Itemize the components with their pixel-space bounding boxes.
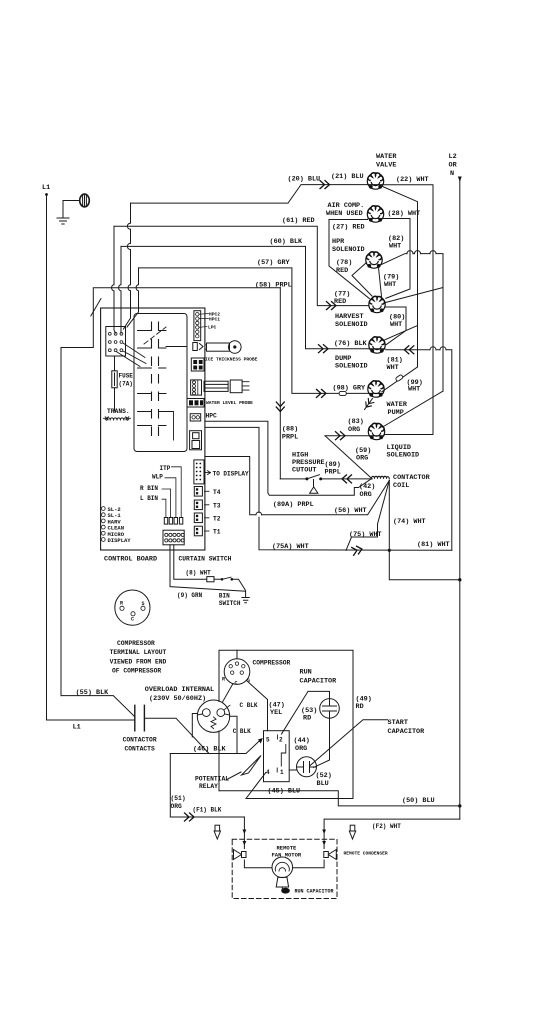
wire compressor S to relay [247, 681, 268, 731]
wire air comp return [368, 219, 410, 299]
svg-text:BLU: BLU [317, 780, 329, 788]
potential relay box [264, 731, 290, 782]
wire (83) ORG run [325, 435, 384, 437]
svg-text:C: C [235, 681, 238, 687]
connector chevron (F1) [185, 813, 195, 821]
inline plug (F1) [215, 825, 220, 831]
start capacitor leader [310, 720, 388, 766]
status LED CLEAN [101, 525, 105, 529]
hop (61) over (58) [112, 285, 114, 291]
svg-text:POTENTIAL: POTENTIAL [195, 776, 229, 783]
svg-text:(45) BLU: (45) BLU [268, 788, 301, 796]
svg-text:C BLK: C BLK [240, 702, 258, 709]
svg-text:(44): (44) [294, 737, 310, 745]
wire HPR feed [352, 263, 372, 297]
svg-text:(81) WHT: (81) WHT [417, 541, 450, 549]
svg-text:HARVEST: HARVEST [335, 313, 364, 321]
svg-text:OVERLOAD INTERNAL: OVERLOAD INTERNAL [145, 686, 214, 694]
status LED DISPLAY [101, 538, 105, 542]
svg-text:WHT: WHT [408, 386, 420, 394]
wire run cap bottom to start cap [314, 718, 330, 767]
solenoid water pump [368, 381, 384, 397]
svg-text:(230V 50/60HZ): (230V 50/60HZ) [149, 695, 206, 703]
terminal strip labels [199, 314, 209, 328]
wire (57) vertical to board [127, 268, 139, 327]
connector chevron (20) [320, 181, 330, 189]
mech contact row 1 [138, 330, 167, 332]
svg-text:CONTACTS: CONTACTS [125, 746, 155, 753]
hop (57) over (58) [136, 285, 138, 291]
svg-text:(21) BLU: (21) BLU [331, 173, 364, 181]
svg-text:VALVE: VALVE [376, 162, 396, 170]
display connector [194, 460, 204, 484]
terminal strip 5 circles [194, 311, 201, 341]
fan run capacitor [282, 887, 285, 893]
water pump stub chevron [365, 399, 373, 410]
wire (55) BLK run [61, 696, 135, 717]
wire dump return to corner [386, 350, 452, 551]
connector chevron (57)->(98) [317, 389, 327, 397]
wire HPR return to bus [382, 254, 444, 392]
connector chevron (61)->(77) [327, 302, 337, 310]
wire (75) WHT jog [346, 481, 389, 551]
hop (56) over v259 [256, 512, 262, 515]
connector chevron (89) [342, 475, 352, 483]
svg-text:SWITCH: SWITCH [219, 600, 241, 607]
svg-text:RD: RD [356, 703, 364, 711]
mech contact plates column 1 [151, 322, 153, 444]
ice thickness probe plug [193, 343, 198, 351]
inline connector capsule (98) [339, 391, 346, 395]
svg-text:SOLENOID: SOLENOID [335, 321, 368, 329]
svg-text:AIR COMP.: AIR COMP. [328, 202, 365, 210]
ground terminal circle [80, 194, 90, 207]
hop (82) over v433 [430, 251, 436, 254]
svg-text:T1: T1 [213, 529, 221, 536]
compressor circle [236, 650, 238, 659]
fan motor wires [244, 860, 324, 868]
svg-text:L BIN: L BIN [140, 495, 158, 502]
board corner diagonal [91, 299, 101, 317]
svg-text:RELAY: RELAY [199, 783, 218, 790]
solenoid air comp [367, 206, 383, 222]
T3 connector [194, 500, 202, 510]
svg-text:2: 2 [279, 737, 283, 744]
wire water valve diag to bus [383, 187, 418, 368]
relay mechanism box [134, 314, 187, 452]
svg-text:(46) BLK: (46) BLK [193, 746, 227, 754]
svg-text:L2: L2 [449, 153, 457, 161]
wire (60) vertical to board [120, 246, 122, 333]
svg-text:TO DISPLAY: TO DISPLAY [213, 470, 249, 477]
svg-text:N: N [450, 170, 454, 178]
svg-text:HPR: HPR [332, 238, 345, 246]
svg-text:CAPACITOR: CAPACITOR [300, 678, 338, 686]
wire (61) RED run [114, 226, 368, 305]
hop (82) over v410 [407, 251, 413, 254]
svg-text:(20) BLU: (20) BLU [288, 176, 321, 184]
connector 2x2 [191, 358, 204, 371]
wire (45) BLU run [246, 773, 353, 799]
node L1 terminal dot [45, 193, 48, 196]
svg-text:ICE THICKNESS PROBE: ICE THICKNESS PROBE [205, 357, 258, 363]
svg-text:PRPL: PRPL [325, 469, 341, 477]
svg-text:T3: T3 [213, 502, 221, 509]
inline plug (F2) [350, 825, 355, 831]
svg-text:ORG: ORG [171, 803, 183, 810]
connector block 9-pin [106, 327, 126, 357]
wire (57) GRY run [139, 268, 384, 394]
connector chevron (75A) [352, 545, 363, 555]
svg-text:ORG: ORG [295, 745, 307, 753]
water level probe body [204, 381, 228, 391]
wire into box left [243, 817, 245, 849]
inline connector (8) [207, 577, 214, 582]
control board box [101, 308, 205, 550]
svg-text:(98) GRY: (98) GRY [333, 385, 367, 393]
svg-text:R: R [222, 677, 225, 683]
svg-text:SOLENOID: SOLENOID [387, 452, 420, 460]
svg-text:HPC1: HPC1 [209, 317, 220, 323]
solenoid water valve [367, 173, 383, 189]
svg-text:OF COMPRESSOR: OF COMPRESSOR [112, 668, 161, 675]
wire (60) BLK run [121, 246, 385, 348]
svg-text:WATER LEVEL PROBE: WATER LEVEL PROBE [206, 400, 253, 406]
bin pins [164, 518, 167, 525]
svg-text:WHT: WHT [384, 281, 396, 289]
wire (8) WHT run [174, 545, 246, 597]
transformer T1 coil [104, 417, 131, 421]
solenoid liquid [368, 423, 384, 439]
wire (42) ORG jog at coil [205, 421, 371, 495]
left plug [234, 850, 242, 860]
svg-text:RED: RED [334, 298, 346, 306]
wire (51) ORG run [170, 754, 244, 818]
svg-text:WLP: WLP [152, 474, 163, 481]
connector chevron (83) [336, 432, 346, 440]
svg-text:C: C [131, 617, 134, 623]
arrowhead into pin 5 [258, 738, 263, 744]
svg-text:(75A) WHT: (75A) WHT [272, 543, 309, 551]
svg-text:1: 1 [280, 769, 284, 776]
svg-text:WHT: WHT [387, 364, 399, 372]
wire (9) GRN run [170, 545, 245, 591]
hop (81) over v433 [430, 347, 436, 350]
wire (46) BLK run [170, 741, 259, 754]
junction dot L2 at (50) [458, 804, 461, 807]
svg-text:(8) WHT: (8) WHT [186, 570, 212, 577]
svg-text:HPC: HPC [206, 413, 218, 420]
node L2 arrowhead [458, 177, 462, 183]
svg-text:L1: L1 [73, 724, 81, 732]
svg-text:(56) WHT: (56) WHT [334, 507, 367, 515]
svg-text:CAPACITOR: CAPACITOR [388, 728, 426, 736]
fan motor base [276, 877, 288, 887]
lower connector [190, 431, 202, 450]
wire (58) PRPL run [61, 288, 280, 696]
svg-text:RUN: RUN [300, 669, 312, 677]
svg-text:ORG: ORG [356, 455, 368, 463]
svg-text:REMOTE CONDENSER: REMOTE CONDENSER [344, 851, 388, 857]
remote fan dashed box [232, 839, 337, 898]
wire (58)/(88) vertical down [279, 288, 281, 479]
svg-text:T2: T2 [213, 515, 221, 522]
svg-text:(57) GRY: (57) GRY [257, 259, 291, 267]
svg-text:(60) BLK: (60) BLK [270, 238, 304, 246]
svg-text:5: 5 [266, 737, 270, 744]
wire water pump return diag [382, 367, 418, 392]
svg-text:(78): (78) [336, 259, 352, 267]
svg-text:VIEWED FROM END: VIEWED FROM END [110, 658, 167, 665]
junction dot L2 at (74) [458, 578, 461, 581]
wire (20) vertical to board [124, 203, 131, 329]
high pressure cutout contacts [280, 475, 370, 479]
svg-text:SOLENOID: SOLENOID [332, 246, 365, 254]
solenoid dump [369, 337, 385, 353]
svg-text:YEL: YEL [270, 709, 282, 717]
wire L1 to contactor [47, 719, 135, 721]
svg-text:DISPLAY: DISPLAY [108, 537, 132, 544]
svg-text:FUSE: FUSE [119, 373, 134, 380]
bin switch ground [242, 598, 249, 603]
svg-text:(74) WHT: (74) WHT [393, 518, 426, 526]
TO DISPLAY label [205, 471, 211, 475]
svg-text:CONTACTOR: CONTACTOR [123, 737, 157, 744]
mech contact row 4 [138, 393, 167, 395]
wire (F2) WHT run [324, 819, 460, 848]
fan motor [272, 857, 293, 878]
svg-text:RD: RD [303, 715, 311, 723]
svg-text:CONTACTOR: CONTACTOR [393, 474, 431, 482]
svg-text:(50) BLU: (50) BLU [402, 797, 435, 805]
ice thickness probe body [207, 343, 230, 351]
dashed mech link [144, 327, 166, 344]
T2 connector [194, 513, 202, 523]
start capacitor [297, 757, 317, 777]
svg-text:(9) GRN: (9) GRN [177, 592, 203, 599]
wire into box right arrow [322, 830, 326, 835]
hop (81) over v443 [440, 347, 446, 350]
svg-text:(F2) WHT: (F2) WHT [372, 823, 401, 830]
svg-text:(28) WHT: (28) WHT [388, 210, 421, 218]
hop (82) over v417.5 [415, 251, 421, 254]
wire (27) RED run [329, 220, 369, 299]
svg-text:R BIN: R BIN [140, 485, 158, 492]
svg-text:RUN CAPACITOR: RUN CAPACITOR [295, 889, 334, 895]
wire (89A) to board [205, 457, 389, 515]
solenoid harvest [369, 296, 385, 312]
svg-text:ITP: ITP [160, 465, 171, 472]
svg-text:(89A) PRPL: (89A) PRPL [273, 501, 314, 509]
wire run cap top [282, 691, 330, 734]
svg-text:L1: L1 [42, 184, 50, 192]
connector 3x1 [187, 399, 204, 408]
status LED MICRO [101, 531, 105, 535]
svg-text:C BLK: C BLK [233, 728, 251, 735]
svg-text:COIL: COIL [393, 482, 409, 490]
svg-text:RED: RED [336, 267, 348, 275]
connector chevron (60)->(76) [319, 345, 329, 353]
svg-text:TRANS.: TRANS. [107, 408, 130, 415]
svg-text:(F1) BLK: (F1) BLK [193, 807, 222, 814]
wire (44) ORG jog [281, 745, 286, 767]
wire (79) WHT run [379, 268, 382, 297]
wire (20) BLU run [131, 185, 384, 204]
solenoid HPR [366, 252, 382, 268]
svg-text:(76) BLK: (76) BLK [334, 340, 368, 348]
wire dump top diag [385, 326, 418, 340]
wire harvest return lower [386, 307, 407, 345]
wire L2 bus vertical [459, 179, 461, 819]
mech contact row 6 [138, 425, 167, 427]
wire (75A) WHT run [259, 548, 452, 551]
compressor terminal layout circle [115, 590, 150, 625]
svg-text:ORG: ORG [348, 426, 360, 434]
mech contact plates column 2 [158, 322, 160, 444]
potential relay leader arrow [226, 756, 261, 781]
run capacitor [320, 699, 340, 719]
svg-text:COMPRESSOR: COMPRESSOR [253, 660, 291, 667]
svg-text:PRPL: PRPL [282, 434, 298, 442]
wire (74) WHT vertical [389, 481, 460, 580]
svg-text:(52): (52) [316, 772, 332, 780]
cutout actuator [310, 480, 318, 494]
compressor box [219, 650, 353, 798]
svg-text:REMOTE: REMOTE [277, 845, 298, 852]
wire harvest return upper [386, 288, 444, 303]
svg-text:(27) RED: (27) RED [332, 224, 365, 232]
wire ground link [63, 201, 80, 218]
bin switch contacts [221, 578, 224, 581]
svg-text:TERMINAL LAYOUT: TERMINAL LAYOUT [110, 649, 167, 656]
svg-text:4: 4 [266, 769, 270, 776]
HPC connector [190, 414, 201, 421]
svg-text:(51): (51) [171, 795, 186, 802]
svg-text:OR: OR [449, 162, 458, 170]
junction dot (75A)/(74) [388, 549, 391, 552]
wire (22) WHT run [384, 185, 434, 435]
svg-text:(88): (88) [282, 426, 298, 434]
svg-text:START: START [388, 719, 408, 727]
contactor contacts bars [135, 705, 145, 731]
mech contact row 5 [138, 412, 174, 441]
wire L1 bus vertical [46, 196, 48, 720]
wire (59) ORG diag [325, 436, 372, 479]
wire liquid return diag [384, 391, 444, 426]
wire compressor C to overload [223, 684, 234, 703]
status LED SL-2 [101, 507, 105, 511]
svg-text:WATER: WATER [387, 401, 408, 409]
svg-text:CUTOUT: CUTOUT [292, 467, 316, 475]
svg-text:COMPRESSOR: COMPRESSOR [117, 640, 155, 647]
ground symbol [57, 218, 69, 224]
chevrons down (88) [276, 402, 284, 412]
svg-text:(7A): (7A) [119, 381, 133, 388]
status LED SL-1 [101, 513, 105, 517]
svg-text:R: R [120, 601, 123, 607]
svg-text:(22) WHT: (22) WHT [396, 176, 429, 184]
water level probe connector [191, 380, 202, 395]
compressor box bottom [219, 791, 460, 806]
wire (75A) vertical from board [205, 427, 259, 549]
svg-text:(58) PRPL: (58) PRPL [255, 282, 292, 290]
svg-text:(61) RED: (61) RED [282, 217, 315, 225]
status LED HARV [101, 519, 105, 523]
svg-text:WHT: WHT [390, 321, 402, 329]
svg-text:SOLENOID: SOLENOID [335, 363, 368, 371]
wire fan to mechanism [117, 343, 146, 367]
svg-text:T4: T4 [213, 489, 221, 496]
T4 connector [194, 487, 202, 497]
hop (60) over (58) [119, 285, 121, 291]
inline connector capsule (99) [395, 374, 403, 381]
wire start cap to pin1 [289, 769, 296, 771]
hop (20) over (58) [128, 285, 130, 291]
svg-text:BIN: BIN [219, 593, 230, 600]
svg-text:WHT: WHT [389, 243, 401, 251]
svg-text:CONTROL BOARD: CONTROL BOARD [104, 556, 157, 564]
svg-text:LPC: LPC [208, 325, 217, 331]
contactor coil [371, 476, 390, 479]
fuse F1 [112, 371, 117, 388]
wire contact to relay [144, 718, 209, 753]
overload link [192, 714, 198, 738]
T1 connector [194, 526, 202, 536]
svg-text:CURTAIN SWITCH: CURTAIN SWITCH [179, 556, 232, 563]
wire overload to (46) [230, 716, 237, 753]
mech contact row 2 [138, 347, 188, 349]
right plug [328, 850, 336, 860]
svg-text:ORG: ORG [360, 491, 372, 499]
overload internal circle [197, 700, 229, 732]
pin ticks [276, 735, 278, 772]
svg-text:(75) WHT: (75) WHT [349, 531, 382, 539]
svg-text:WHEN USED: WHEN USED [326, 210, 363, 218]
wire (61) vertical to board [114, 226, 116, 333]
connector chevron dump return [404, 346, 414, 354]
svg-text:(42): (42) [359, 483, 375, 491]
mech contact row 3 [138, 367, 167, 369]
svg-text:WATER: WATER [376, 153, 397, 161]
connector 10-pin [163, 530, 184, 545]
svg-text:(83): (83) [348, 418, 364, 426]
